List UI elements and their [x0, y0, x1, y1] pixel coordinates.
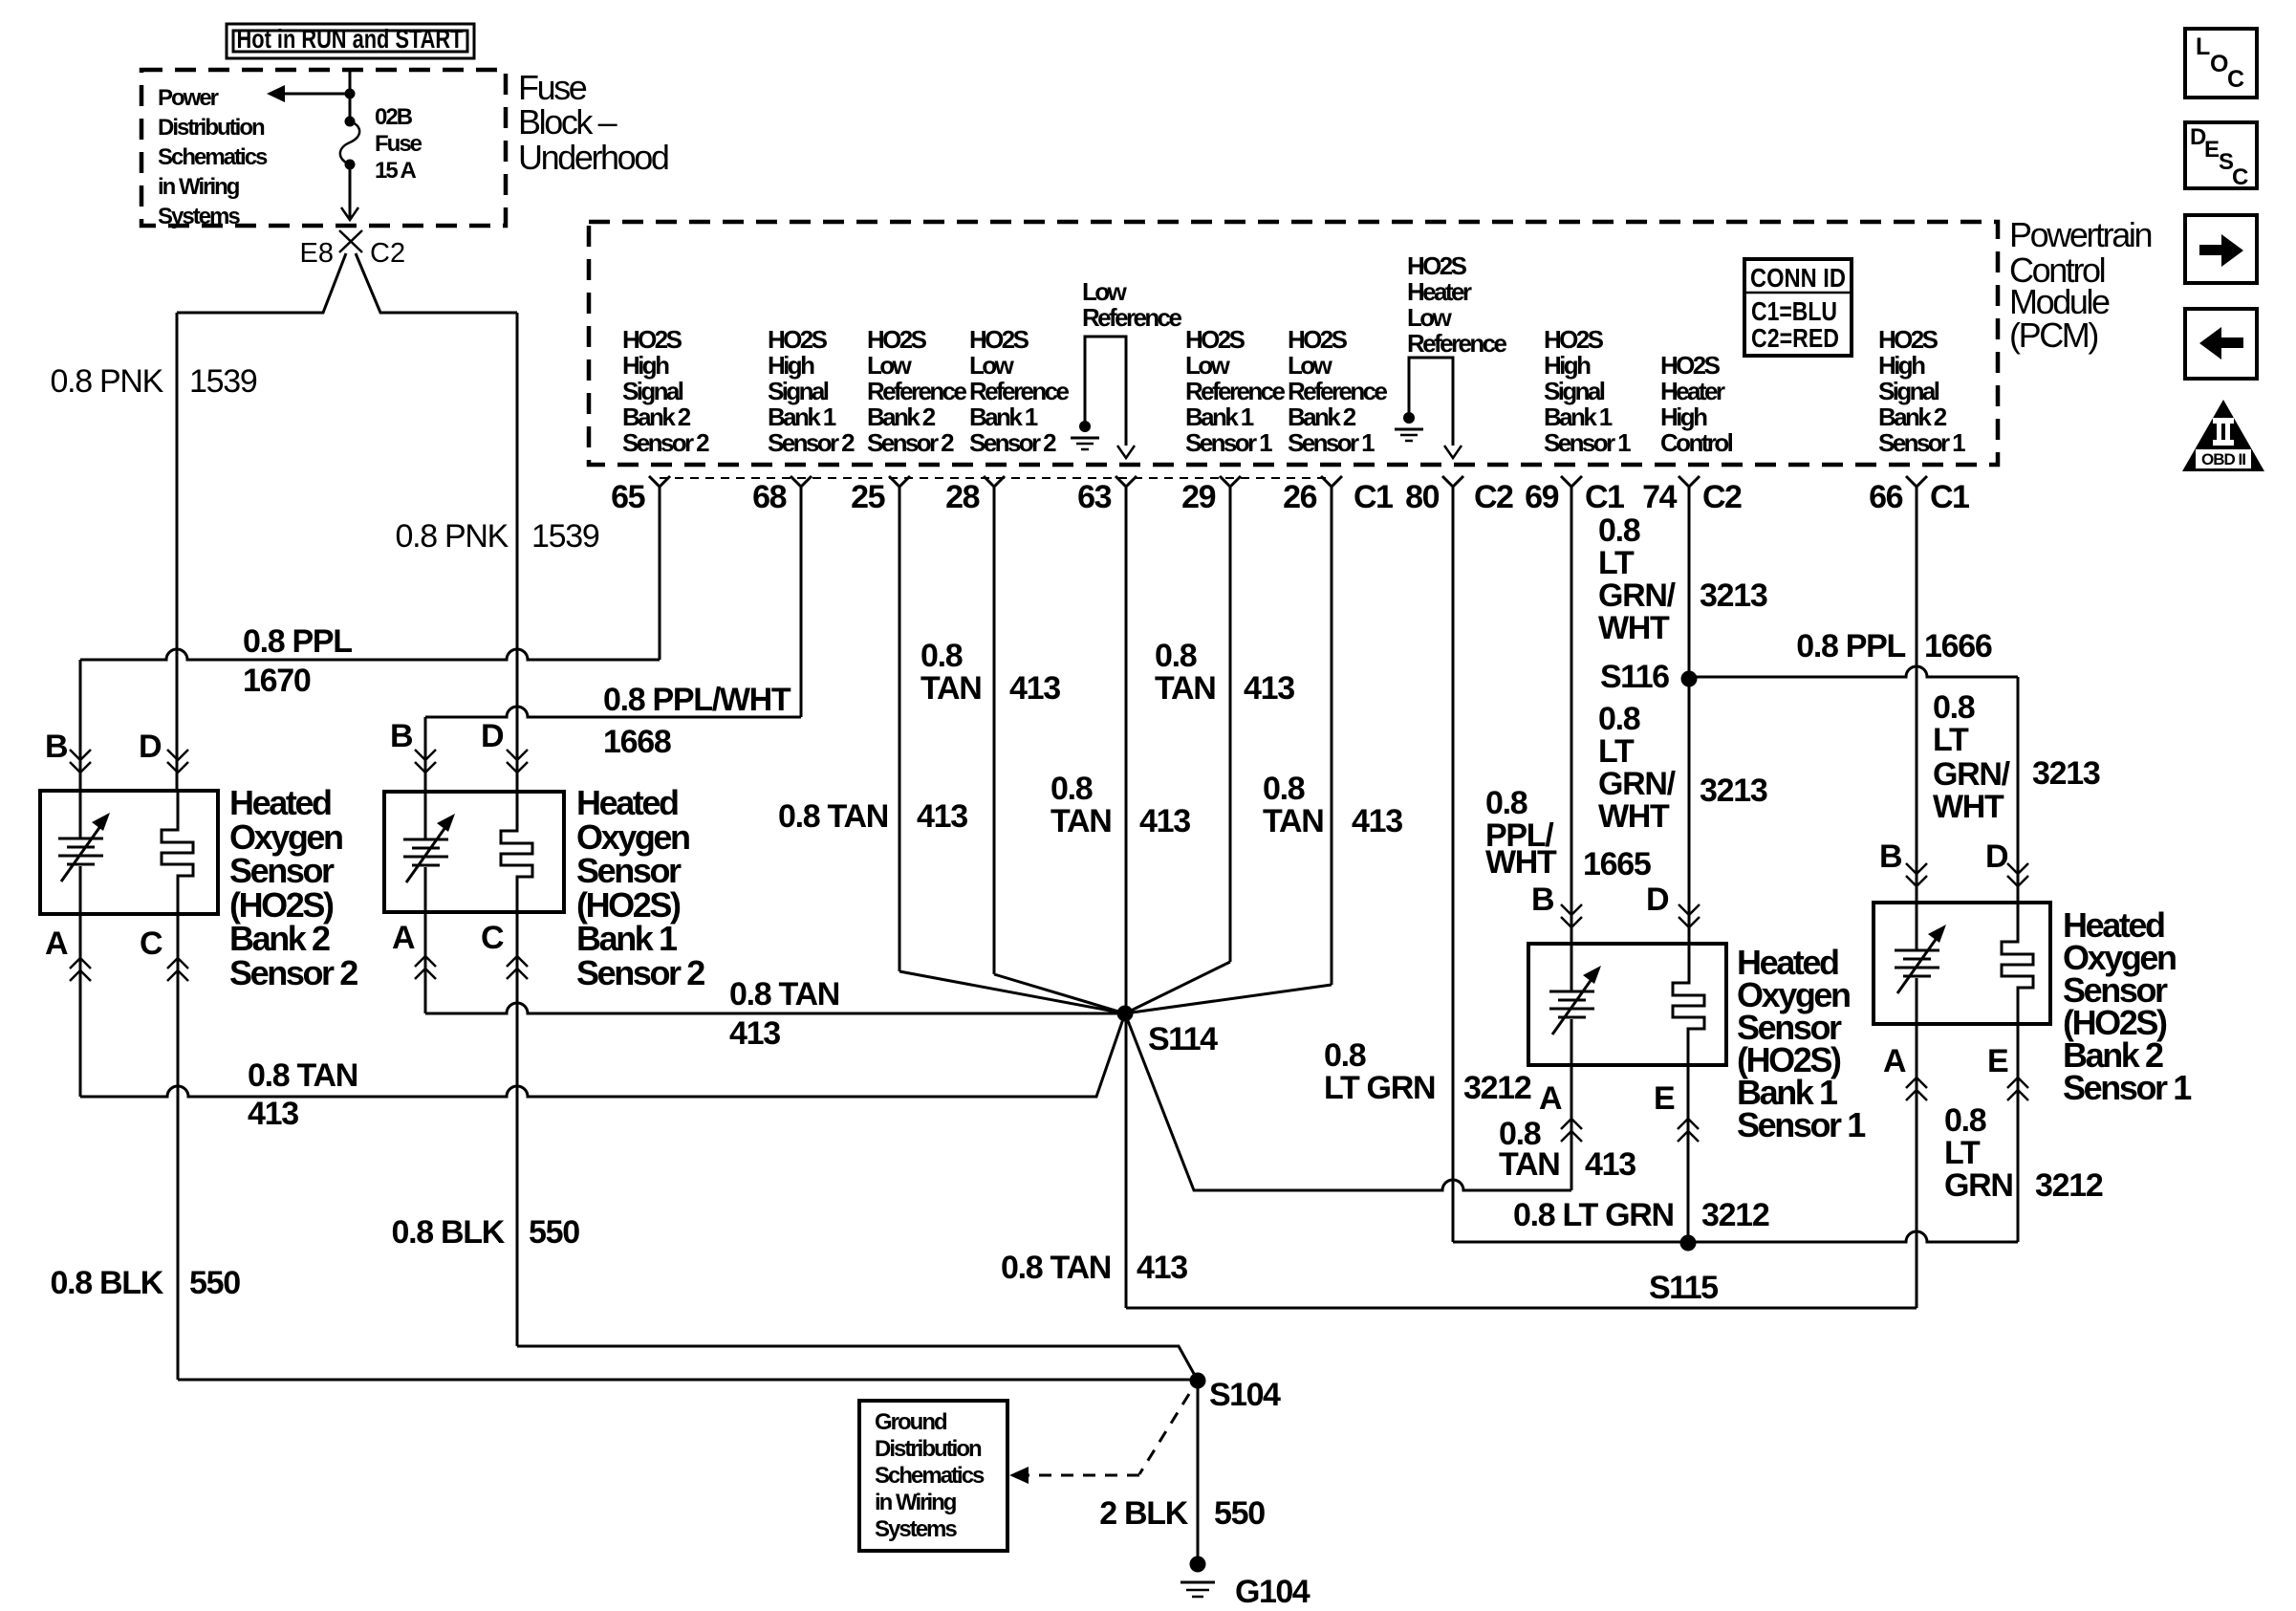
svg-text:3213: 3213: [1700, 577, 1767, 614]
svg-text:1665: 1665: [1583, 846, 1651, 882]
svg-text:Distribution: Distribution: [875, 1436, 982, 1462]
svg-text:Signal: Signal: [1544, 377, 1605, 405]
svg-text:0.8 BLK: 0.8 BLK: [392, 1214, 506, 1251]
svg-text:0.8: 0.8: [1598, 701, 1640, 737]
svg-text:High: High: [1544, 351, 1591, 380]
svg-text:Systems: Systems: [875, 1516, 957, 1542]
svg-text:Signal: Signal: [768, 377, 829, 405]
svg-text:Sensor 2: Sensor 2: [576, 953, 704, 992]
svg-text:TAN: TAN: [1051, 803, 1111, 839]
svg-text:29: 29: [1181, 479, 1215, 515]
svg-text:63: 63: [1077, 479, 1111, 515]
svg-text:HO2S: HO2S: [1878, 325, 1939, 354]
svg-text:Reference: Reference: [1082, 303, 1181, 332]
svg-text:Bank 1: Bank 1: [1544, 403, 1613, 431]
svg-text:3212: 3212: [1701, 1197, 1769, 1233]
svg-text:Hot in RUN and START: Hot in RUN and START: [237, 24, 464, 54]
svg-text:0.8 BLK: 0.8 BLK: [51, 1265, 164, 1301]
svg-text:E: E: [1654, 1080, 1675, 1117]
svg-text:Schematics: Schematics: [158, 144, 268, 170]
svg-text:Sensor 2: Sensor 2: [768, 428, 855, 457]
svg-text:D: D: [1646, 882, 1669, 918]
svg-text:S115: S115: [1649, 1270, 1718, 1306]
svg-text:413: 413: [1009, 670, 1060, 707]
svg-text:TAN: TAN: [1499, 1146, 1559, 1183]
svg-text:GRN/: GRN/: [1598, 577, 1677, 614]
svg-text:15 A: 15 A: [375, 158, 416, 184]
svg-text:Reference: Reference: [1288, 377, 1387, 405]
svg-text:550: 550: [1214, 1495, 1265, 1532]
svg-text:High: High: [1878, 351, 1925, 380]
svg-text:Low: Low: [1185, 351, 1231, 380]
svg-text:Low: Low: [1288, 351, 1333, 380]
svg-text:413: 413: [1352, 803, 1402, 839]
svg-text:550: 550: [529, 1214, 579, 1251]
svg-text:C: C: [481, 920, 504, 956]
svg-text:G104: G104: [1235, 1574, 1310, 1610]
svg-text:Low: Low: [1407, 303, 1453, 332]
svg-text:1668: 1668: [603, 724, 671, 760]
svg-text:0.8: 0.8: [1933, 689, 1975, 726]
svg-text:413: 413: [729, 1015, 780, 1052]
svg-text:0.8 TAN: 0.8 TAN: [248, 1057, 357, 1094]
svg-text:E8: E8: [300, 238, 334, 269]
svg-text:GRN/: GRN/: [1933, 756, 2011, 793]
svg-text:0.8: 0.8: [1324, 1037, 1366, 1074]
svg-text:Ground: Ground: [875, 1409, 947, 1435]
svg-text:TAN: TAN: [921, 670, 981, 707]
svg-text:Fuse: Fuse: [518, 68, 587, 107]
svg-text:Sensor 1: Sensor 1: [2063, 1068, 2192, 1107]
svg-text:1666: 1666: [1924, 628, 1992, 664]
svg-text:C2: C2: [1474, 479, 1513, 515]
svg-text:Bank 2: Bank 2: [622, 403, 691, 431]
svg-text:O: O: [2210, 51, 2228, 77]
svg-text:(PCM): (PCM): [2009, 316, 2097, 355]
svg-text:C2: C2: [370, 238, 405, 269]
svg-text:1670: 1670: [243, 663, 311, 699]
svg-text:Sensor 2: Sensor 2: [969, 428, 1056, 457]
svg-text:Bank 1: Bank 1: [768, 403, 836, 431]
svg-text:LT: LT: [1598, 545, 1635, 581]
svg-text:Control: Control: [1660, 428, 1733, 457]
svg-text:Signal: Signal: [622, 377, 683, 405]
svg-text:Low: Low: [867, 351, 913, 380]
svg-text:D: D: [139, 729, 162, 765]
svg-text:High: High: [768, 351, 814, 380]
svg-text:HO2S: HO2S: [1544, 325, 1604, 354]
svg-text:Heated: Heated: [576, 783, 678, 822]
svg-text:25: 25: [851, 479, 884, 515]
svg-text:TAN: TAN: [1263, 803, 1323, 839]
svg-text:HO2S: HO2S: [1407, 251, 1467, 280]
svg-text:Sensor 1: Sensor 1: [1878, 428, 1965, 457]
svg-text:HO2S: HO2S: [1288, 325, 1348, 354]
svg-text:High: High: [1660, 403, 1707, 431]
svg-text:L: L: [2196, 33, 2210, 60]
svg-text:413: 413: [1585, 1146, 1635, 1183]
svg-text:C1: C1: [1354, 479, 1393, 515]
svg-text:Bank 1: Bank 1: [576, 919, 678, 958]
svg-text:S116: S116: [1600, 659, 1669, 695]
svg-text:Sensor 1: Sensor 1: [1185, 428, 1272, 457]
svg-text:Sensor: Sensor: [229, 851, 335, 890]
svg-text:HO2S: HO2S: [768, 325, 828, 354]
svg-text:413: 413: [917, 798, 967, 835]
svg-text:C: C: [140, 925, 162, 962]
svg-text:B: B: [1531, 882, 1554, 918]
svg-text:GRN: GRN: [1944, 1167, 2013, 1204]
svg-text:74: 74: [1642, 479, 1677, 515]
svg-text:0.8 TAN: 0.8 TAN: [778, 798, 888, 835]
svg-text:A: A: [392, 920, 415, 956]
svg-text:413: 413: [1137, 1250, 1187, 1286]
svg-text:B: B: [390, 718, 413, 754]
svg-text:C: C: [2232, 164, 2248, 190]
svg-text:Distribution: Distribution: [158, 115, 265, 141]
svg-text:0.8 PNK: 0.8 PNK: [395, 518, 509, 555]
svg-text:WHT: WHT: [1598, 798, 1670, 835]
svg-text:Power: Power: [158, 85, 219, 111]
svg-text:Low: Low: [1082, 277, 1128, 306]
svg-text:C1: C1: [1930, 479, 1969, 515]
svg-text:Low: Low: [969, 351, 1015, 380]
svg-text:0.8 PNK: 0.8 PNK: [50, 363, 163, 400]
svg-text:0.8 PPL: 0.8 PPL: [243, 623, 352, 660]
svg-text:2 BLK: 2 BLK: [1099, 1495, 1188, 1532]
svg-text:S114: S114: [1148, 1021, 1218, 1057]
svg-text:Sensor 2: Sensor 2: [867, 428, 954, 457]
svg-text:Bank 2: Bank 2: [229, 919, 330, 958]
svg-text:3213: 3213: [2032, 755, 2100, 792]
svg-text:0.8: 0.8: [1051, 771, 1093, 807]
svg-text:550: 550: [189, 1265, 240, 1301]
svg-text:0.8 TAN: 0.8 TAN: [729, 976, 839, 1012]
svg-text:HO2S: HO2S: [622, 325, 682, 354]
svg-text:0.8 LT GRN: 0.8 LT GRN: [1513, 1197, 1674, 1233]
svg-text:0.8 TAN: 0.8 TAN: [1001, 1250, 1111, 1286]
svg-text:A: A: [45, 925, 68, 962]
svg-text:Bank 2: Bank 2: [1878, 403, 1947, 431]
svg-text:Reference: Reference: [969, 377, 1069, 405]
svg-text:LT: LT: [1598, 733, 1635, 770]
svg-text:80: 80: [1405, 479, 1439, 515]
svg-text:TAN: TAN: [1155, 670, 1215, 707]
svg-text:0.8: 0.8: [1263, 771, 1305, 807]
svg-text:WHT: WHT: [1485, 844, 1557, 881]
svg-text:C2=RED: C2=RED: [1751, 323, 1839, 353]
svg-text:LT: LT: [1933, 722, 1969, 758]
svg-text:Reference: Reference: [1407, 329, 1506, 358]
svg-text:HO2S: HO2S: [1660, 351, 1721, 380]
svg-text:65: 65: [611, 479, 644, 515]
svg-text:1539: 1539: [189, 363, 257, 400]
svg-text:B: B: [1879, 838, 1902, 875]
svg-text:Heated: Heated: [229, 783, 331, 822]
svg-text:69: 69: [1525, 479, 1558, 515]
svg-text:A: A: [1883, 1043, 1906, 1079]
svg-text:Bank 1: Bank 1: [1185, 403, 1254, 431]
svg-text:413: 413: [248, 1096, 298, 1132]
svg-text:Sensor 2: Sensor 2: [622, 428, 709, 457]
svg-text:E: E: [1987, 1043, 2008, 1079]
svg-text:26: 26: [1283, 479, 1316, 515]
svg-text:HO2S: HO2S: [1185, 325, 1245, 354]
svg-text:413: 413: [1139, 803, 1190, 839]
svg-text:3212: 3212: [2035, 1167, 2103, 1204]
svg-text:D: D: [481, 718, 504, 754]
svg-text:Reference: Reference: [1185, 377, 1285, 405]
svg-text:Systems: Systems: [158, 204, 240, 229]
svg-text:HO2S: HO2S: [867, 325, 927, 354]
svg-text:68: 68: [752, 479, 786, 515]
svg-text:Reference: Reference: [867, 377, 966, 405]
svg-text:E: E: [2204, 137, 2220, 163]
svg-text:0.8: 0.8: [1155, 638, 1197, 674]
svg-text:LT GRN: LT GRN: [1324, 1070, 1435, 1106]
svg-text:Block –: Block –: [518, 102, 617, 142]
svg-text:0.8: 0.8: [1944, 1102, 1986, 1139]
svg-text:Underhood: Underhood: [518, 138, 668, 177]
svg-text:Heater: Heater: [1660, 377, 1725, 405]
svg-text:C2: C2: [1702, 479, 1742, 515]
svg-text:Bank 2: Bank 2: [867, 403, 936, 431]
svg-text:CONN ID: CONN ID: [1750, 263, 1846, 293]
svg-text:0.8: 0.8: [1485, 785, 1527, 821]
svg-text:Sensor 1: Sensor 1: [1544, 428, 1631, 457]
svg-text:0.8: 0.8: [921, 638, 963, 674]
svg-text:S104: S104: [1209, 1377, 1281, 1413]
svg-text:66: 66: [1869, 479, 1902, 515]
svg-text:GRN/: GRN/: [1598, 766, 1677, 802]
svg-text:Heater: Heater: [1407, 277, 1472, 306]
svg-text:Sensor 1: Sensor 1: [1737, 1105, 1866, 1144]
svg-text:B: B: [45, 729, 68, 765]
svg-text:Powertrain: Powertrain: [2009, 215, 2151, 254]
svg-text:Sensor 1: Sensor 1: [1288, 428, 1375, 457]
svg-text:LT: LT: [1944, 1135, 1981, 1171]
svg-text:C1=BLU: C1=BLU: [1751, 296, 1837, 326]
svg-text:D: D: [1985, 838, 2008, 875]
svg-text:Sensor 2: Sensor 2: [229, 953, 357, 992]
svg-text:Signal: Signal: [1878, 377, 1939, 405]
svg-text:0.8 PPL: 0.8 PPL: [1796, 628, 1905, 664]
svg-text:Bank 2: Bank 2: [1288, 403, 1356, 431]
svg-text:C1: C1: [1585, 479, 1624, 515]
svg-text:A: A: [1539, 1080, 1562, 1117]
svg-text:WHT: WHT: [1933, 789, 2004, 825]
svg-text:1539: 1539: [531, 518, 599, 555]
svg-text:HO2S: HO2S: [969, 325, 1029, 354]
svg-text:Sensor: Sensor: [576, 851, 682, 890]
svg-text:WHT: WHT: [1598, 610, 1670, 646]
svg-text:Fuse: Fuse: [375, 131, 422, 157]
svg-text:28: 28: [945, 479, 979, 515]
svg-text:02B: 02B: [375, 104, 413, 130]
svg-text:OBD II: OBD II: [2201, 450, 2245, 468]
svg-text:High: High: [622, 351, 669, 380]
svg-text:Schematics: Schematics: [875, 1463, 985, 1489]
svg-text:C: C: [2227, 66, 2244, 93]
svg-text:0.8: 0.8: [1598, 512, 1640, 549]
svg-text:0.8 PPL/WHT: 0.8 PPL/WHT: [603, 682, 791, 718]
svg-text:3212: 3212: [1463, 1070, 1531, 1106]
svg-text:Bank 1: Bank 1: [969, 403, 1038, 431]
svg-text:3213: 3213: [1700, 773, 1767, 809]
svg-text:413: 413: [1244, 670, 1294, 707]
svg-text:in Wiring: in Wiring: [875, 1490, 957, 1515]
svg-text:in Wiring: in Wiring: [158, 174, 240, 200]
